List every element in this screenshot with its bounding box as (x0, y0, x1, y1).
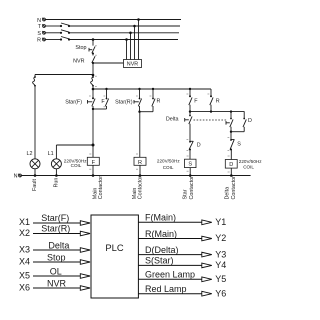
svg-text:Star(R): Star(R) (115, 99, 133, 105)
svg-text:X1: X1 (19, 217, 30, 227)
svg-text:NVR: NVR (47, 278, 67, 288)
svg-text:Fault: Fault (32, 179, 38, 191)
svg-text:N: N (37, 18, 41, 24)
svg-text:DeltaContactor: DeltaContactor (225, 176, 237, 200)
svg-text:S: S (237, 142, 241, 148)
svg-text:Y6: Y6 (215, 288, 226, 298)
svg-text:L2: L2 (27, 151, 33, 157)
svg-text:StarContactor: StarContactor (183, 176, 195, 200)
svg-text:Y1: Y1 (215, 217, 226, 227)
svg-text:Star(F): Star(F) (41, 213, 69, 223)
svg-text:Y2: Y2 (215, 233, 226, 243)
svg-text:Delta: Delta (48, 240, 69, 250)
svg-text:Star(F): Star(F) (65, 99, 82, 105)
svg-text:F(Main): F(Main) (145, 213, 176, 223)
svg-text:COIL: COIL (163, 165, 174, 170)
svg-text:NVR: NVR (73, 59, 84, 65)
svg-text:MainContactor: MainContactor (93, 176, 105, 200)
svg-text:Y4: Y4 (215, 260, 226, 270)
svg-text:PLC: PLC (105, 242, 123, 253)
svg-text:Stop: Stop (47, 252, 66, 262)
svg-text:X5: X5 (19, 271, 30, 281)
svg-text:MainContactor: MainContactor (132, 176, 144, 200)
svg-text:220V/50Hz: 220V/50Hz (157, 158, 180, 163)
svg-text:X6: X6 (19, 283, 30, 293)
svg-text:Delta: Delta (166, 117, 179, 123)
svg-text:S: S (37, 31, 41, 37)
svg-text:Green Lamp: Green Lamp (145, 270, 195, 280)
svg-text:R: R (37, 38, 41, 44)
svg-text:D(Delta): D(Delta) (145, 245, 179, 255)
svg-text:Y5: Y5 (215, 274, 226, 284)
svg-text:COIL: COIL (243, 164, 254, 169)
svg-text:F: F (101, 99, 105, 105)
svg-text:X3: X3 (19, 245, 30, 255)
svg-text:S(Star): S(Star) (145, 256, 174, 266)
svg-text:Red Lamp: Red Lamp (145, 284, 187, 294)
svg-text:Y3: Y3 (215, 249, 226, 259)
svg-text:D: D (197, 142, 201, 148)
svg-text:D: D (229, 162, 233, 168)
svg-text:R: R (138, 160, 142, 166)
svg-text:OL: OL (50, 266, 62, 276)
svg-text:D: D (248, 118, 252, 124)
svg-text:NVR: NVR (127, 62, 138, 68)
svg-text:N: N (14, 174, 18, 180)
svg-text:F: F (194, 98, 198, 104)
svg-text:Run: Run (54, 178, 60, 188)
svg-text:Stop: Stop (75, 45, 86, 51)
svg-text:S: S (188, 162, 192, 168)
svg-text:X2: X2 (19, 228, 30, 238)
svg-text:R: R (157, 98, 161, 104)
svg-text:COIL: COIL (71, 163, 82, 168)
svg-text:F: F (92, 160, 96, 166)
svg-text:R(Main): R(Main) (145, 229, 177, 239)
svg-text:L1: L1 (48, 151, 54, 157)
svg-text:Star(R): Star(R) (41, 224, 70, 234)
svg-text:X4: X4 (19, 257, 30, 267)
svg-text:T: T (38, 24, 42, 30)
svg-text:R: R (216, 98, 220, 104)
